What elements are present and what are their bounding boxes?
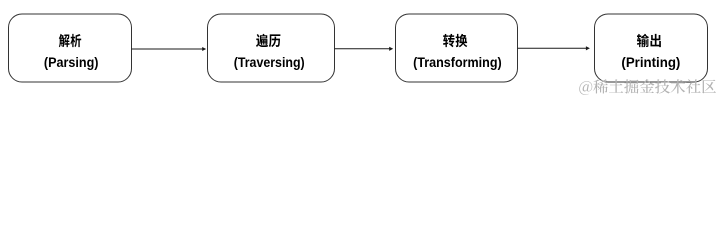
- svg-text:(Parsing): (Parsing): [44, 54, 99, 70]
- arrow 1: [132, 48, 203, 50]
- box Parsing: [9, 14, 132, 82]
- box Transforming: [396, 14, 518, 82]
- label 输出: [637, 34, 661, 47]
- label 遍历: [256, 34, 280, 47]
- svg-text:(Printing): (Printing): [621, 55, 680, 70]
- svg-text:(Transforming): (Transforming): [413, 54, 502, 70]
- arrow 2: [335, 48, 390, 50]
- label 转换: [443, 34, 467, 47]
- arrow 3: [518, 47, 587, 49]
- box Printing: [595, 14, 708, 82]
- svg-text:(Traversing): (Traversing): [234, 54, 305, 70]
- label 解析: [59, 34, 81, 47]
- watermark @稀土掘金技术社区: [579, 79, 716, 95]
- box Traversing: [208, 14, 335, 82]
